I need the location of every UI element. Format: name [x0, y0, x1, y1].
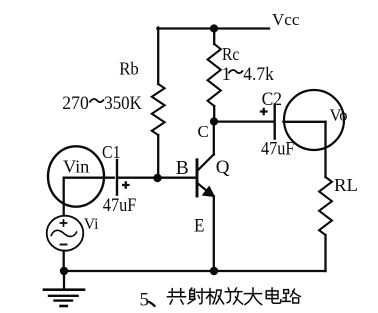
svg-text:4.7k: 4.7k	[243, 64, 274, 85]
svg-text:1: 1	[222, 64, 232, 85]
svg-text:B: B	[176, 158, 189, 179]
svg-text:Vin: Vin	[63, 156, 89, 176]
svg-text:47uF: 47uF	[103, 196, 137, 216]
svg-text:C1: C1	[102, 142, 121, 162]
svg-text:350K: 350K	[104, 93, 142, 114]
svg-text:Vo: Vo	[330, 106, 348, 125]
svg-text:Q: Q	[216, 157, 230, 178]
svg-text:47uF: 47uF	[261, 140, 295, 160]
svg-text:Vcc: Vcc	[272, 10, 300, 29]
svg-text:RL: RL	[334, 175, 358, 195]
svg-text:5: 5	[140, 290, 150, 311]
svg-text:270: 270	[62, 93, 89, 114]
svg-text:C: C	[198, 122, 209, 141]
svg-text:Rc: Rc	[222, 44, 239, 64]
svg-text:Rb: Rb	[119, 59, 139, 79]
svg-text:Vi: Vi	[84, 216, 99, 233]
svg-text:E: E	[194, 215, 205, 236]
svg-text:C2: C2	[262, 90, 283, 110]
